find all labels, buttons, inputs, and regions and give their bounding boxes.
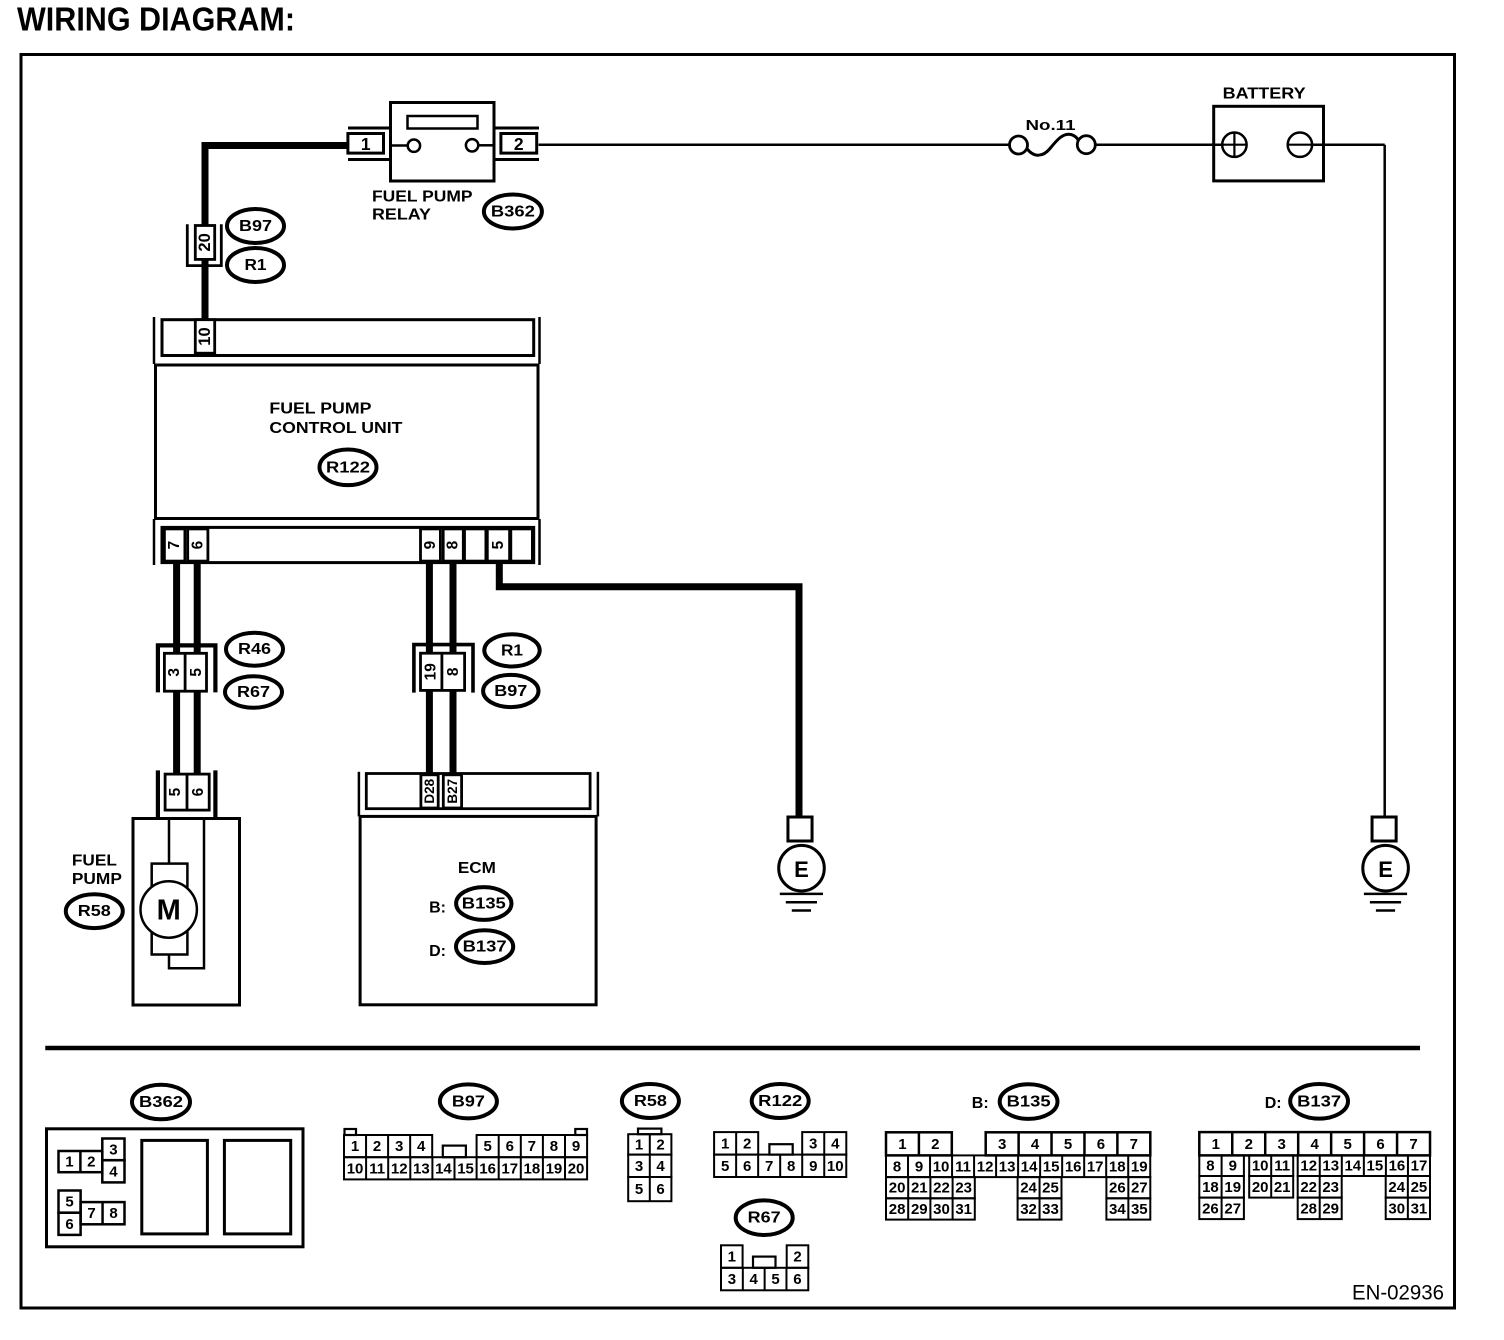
svg-text:20: 20 [568,1160,585,1177]
svg-text:B137: B137 [1297,1093,1341,1110]
svg-text:2: 2 [793,1249,801,1266]
svg-text:R1: R1 [245,257,267,274]
svg-text:FUEL PUMP: FUEL PUMP [269,401,371,418]
svg-text:6: 6 [506,1138,514,1155]
svg-text:PUMP: PUMP [72,871,122,888]
svg-text:30: 30 [933,1201,950,1218]
svg-text:3: 3 [1278,1136,1286,1153]
svg-text:6: 6 [189,540,206,549]
svg-text:3: 3 [809,1135,817,1152]
svg-text:R67: R67 [748,1210,781,1227]
svg-text:3: 3 [395,1138,403,1155]
svg-text:2: 2 [373,1138,381,1155]
svg-text:CONTROL UNIT: CONTROL UNIT [269,420,402,437]
svg-text:16: 16 [1065,1158,1082,1175]
svg-text:24: 24 [1388,1179,1405,1196]
svg-text:24: 24 [1020,1180,1037,1197]
svg-text:1: 1 [635,1136,643,1153]
svg-text:B:: B: [429,900,446,917]
svg-text:5: 5 [771,1271,779,1288]
svg-text:8: 8 [893,1158,901,1175]
svg-text:9: 9 [915,1158,923,1175]
svg-text:5: 5 [721,1158,729,1175]
svg-text:ECM: ECM [458,860,496,877]
svg-text:16: 16 [479,1160,496,1177]
svg-text:6: 6 [1097,1136,1105,1153]
svg-text:D28: D28 [422,778,437,803]
svg-text:35: 35 [1131,1201,1148,1218]
svg-text:18: 18 [524,1160,541,1177]
svg-text:6: 6 [1376,1136,1384,1153]
svg-text:23: 23 [1322,1179,1339,1196]
svg-text:R1: R1 [501,642,523,659]
svg-text:2: 2 [743,1135,751,1152]
svg-text:1: 1 [898,1136,906,1153]
svg-text:4: 4 [831,1135,840,1152]
svg-text:10: 10 [196,327,214,345]
svg-text:6: 6 [743,1158,751,1175]
svg-text:RELAY: RELAY [372,207,431,224]
svg-text:31: 31 [955,1201,972,1218]
svg-text:13: 13 [413,1160,430,1177]
svg-text:9: 9 [809,1158,817,1175]
svg-text:8: 8 [445,667,462,676]
svg-text:7: 7 [166,541,183,550]
svg-text:18: 18 [1202,1179,1219,1196]
svg-text:13: 13 [999,1158,1016,1175]
svg-text:11: 11 [369,1160,385,1177]
svg-text:B135: B135 [1007,1094,1051,1111]
svg-text:21: 21 [1274,1179,1291,1196]
svg-text:4: 4 [656,1158,665,1175]
svg-text:M: M [157,895,181,927]
svg-text:R122: R122 [326,459,370,476]
svg-text:11: 11 [955,1158,971,1175]
svg-text:B97: B97 [452,1093,485,1110]
svg-text:1: 1 [1212,1136,1220,1153]
svg-text:29: 29 [1322,1200,1339,1217]
svg-text:5: 5 [1064,1136,1072,1153]
svg-text:19: 19 [546,1160,563,1177]
svg-text:9: 9 [422,540,439,549]
svg-text:20: 20 [196,233,214,251]
svg-text:26: 26 [1202,1200,1219,1217]
svg-text:10: 10 [933,1158,950,1175]
svg-text:9: 9 [572,1138,580,1155]
svg-text:3: 3 [998,1136,1006,1153]
svg-text:20: 20 [889,1180,906,1197]
svg-text:14: 14 [1021,1158,1038,1175]
svg-text:B362: B362 [139,1094,183,1111]
svg-text:6: 6 [656,1181,664,1198]
svg-text:D:: D: [429,943,446,960]
svg-text:8: 8 [1206,1158,1214,1175]
svg-text:26: 26 [1109,1180,1126,1197]
svg-text:R58: R58 [634,1093,667,1110]
svg-text:12: 12 [977,1158,994,1175]
svg-text:FUEL: FUEL [72,853,117,870]
svg-text:13: 13 [1322,1158,1339,1175]
svg-text:5: 5 [490,540,507,549]
svg-text:12: 12 [1300,1158,1317,1175]
svg-text:B362: B362 [491,204,535,221]
svg-text:5: 5 [635,1181,643,1198]
svg-text:28: 28 [889,1201,906,1218]
svg-text:1: 1 [65,1154,73,1171]
svg-text:7: 7 [87,1205,95,1222]
svg-text:9: 9 [1229,1158,1237,1175]
svg-text:10: 10 [1252,1158,1269,1175]
svg-text:2: 2 [931,1136,939,1153]
svg-text:1: 1 [728,1249,736,1266]
svg-text:23: 23 [955,1180,972,1197]
svg-text:7: 7 [1409,1136,1417,1153]
svg-text:5: 5 [1343,1136,1351,1153]
svg-text:R46: R46 [238,641,271,658]
svg-text:FUEL PUMP: FUEL PUMP [372,188,473,205]
svg-text:4: 4 [1031,1136,1040,1153]
svg-text:8: 8 [550,1138,558,1155]
svg-text:4: 4 [1310,1136,1319,1153]
svg-text:16: 16 [1389,1158,1406,1175]
svg-text:30: 30 [1388,1200,1405,1217]
svg-text:14: 14 [1344,1158,1361,1175]
svg-text:6: 6 [65,1216,73,1233]
svg-text:B135: B135 [462,896,506,913]
svg-text:4: 4 [417,1138,426,1155]
svg-text:R122: R122 [758,1093,802,1110]
svg-text:3: 3 [109,1141,117,1158]
svg-text:E: E [794,857,809,882]
svg-text:3: 3 [728,1271,736,1288]
svg-text:15: 15 [1043,1158,1060,1175]
svg-text:4: 4 [109,1163,118,1180]
svg-text:B27: B27 [445,779,460,804]
svg-text:18: 18 [1109,1158,1126,1175]
svg-text:2: 2 [87,1154,95,1171]
svg-text:No.11: No.11 [1026,117,1076,134]
svg-text:31: 31 [1411,1200,1428,1217]
svg-text:4: 4 [750,1271,759,1288]
svg-text:B97: B97 [494,683,527,700]
svg-text:1: 1 [721,1135,729,1152]
svg-text:33: 33 [1042,1201,1059,1218]
svg-text:28: 28 [1300,1200,1317,1217]
svg-text:2: 2 [1245,1136,1253,1153]
svg-text:19: 19 [1131,1158,1148,1175]
svg-text:27: 27 [1224,1200,1241,1217]
svg-text:5: 5 [65,1194,73,1211]
svg-text:12: 12 [391,1160,408,1177]
svg-text:21: 21 [911,1180,928,1197]
svg-text:D:: D: [1265,1095,1282,1112]
svg-text:15: 15 [1367,1158,1384,1175]
svg-text:8: 8 [445,540,462,549]
svg-text:6: 6 [190,787,207,796]
svg-text:EN-02936: EN-02936 [1352,1282,1444,1305]
svg-text:2: 2 [656,1136,664,1153]
svg-text:27: 27 [1131,1180,1148,1197]
svg-text:B97: B97 [239,218,272,235]
svg-text:7: 7 [528,1138,536,1155]
svg-text:8: 8 [787,1158,795,1175]
svg-text:B:: B: [972,1095,989,1112]
svg-text:32: 32 [1020,1201,1037,1218]
svg-text:5: 5 [483,1138,491,1155]
svg-text:25: 25 [1411,1179,1428,1196]
svg-text:1: 1 [361,134,371,154]
svg-text:5: 5 [167,787,184,796]
svg-text:20: 20 [1252,1179,1269,1196]
svg-text:14: 14 [435,1160,452,1177]
svg-text:R58: R58 [78,903,111,920]
svg-text:10: 10 [347,1160,364,1177]
svg-text:E: E [1378,857,1393,882]
svg-text:7: 7 [765,1158,773,1175]
svg-text:2: 2 [514,134,524,154]
svg-text:19: 19 [1224,1179,1241,1196]
svg-text:3: 3 [166,668,183,677]
svg-text:BATTERY: BATTERY [1223,85,1306,102]
svg-text:19: 19 [422,663,439,681]
svg-text:10: 10 [827,1158,844,1175]
svg-text:22: 22 [1300,1179,1317,1196]
svg-text:17: 17 [1411,1158,1428,1175]
svg-text:8: 8 [109,1205,117,1222]
svg-text:11: 11 [1274,1158,1290,1175]
svg-text:WIRING DIAGRAM:: WIRING DIAGRAM: [17,1,295,38]
svg-text:3: 3 [635,1158,643,1175]
svg-text:6: 6 [793,1271,801,1288]
svg-text:7: 7 [1130,1136,1138,1153]
svg-text:29: 29 [911,1201,928,1218]
svg-text:17: 17 [501,1160,518,1177]
svg-text:17: 17 [1087,1158,1104,1175]
svg-text:25: 25 [1042,1180,1059,1197]
svg-text:R67: R67 [237,684,270,701]
svg-text:22: 22 [933,1180,950,1197]
svg-text:15: 15 [457,1160,474,1177]
svg-text:34: 34 [1109,1201,1126,1218]
svg-text:B137: B137 [463,939,507,956]
svg-text:5: 5 [188,668,205,677]
svg-text:1: 1 [351,1138,359,1155]
